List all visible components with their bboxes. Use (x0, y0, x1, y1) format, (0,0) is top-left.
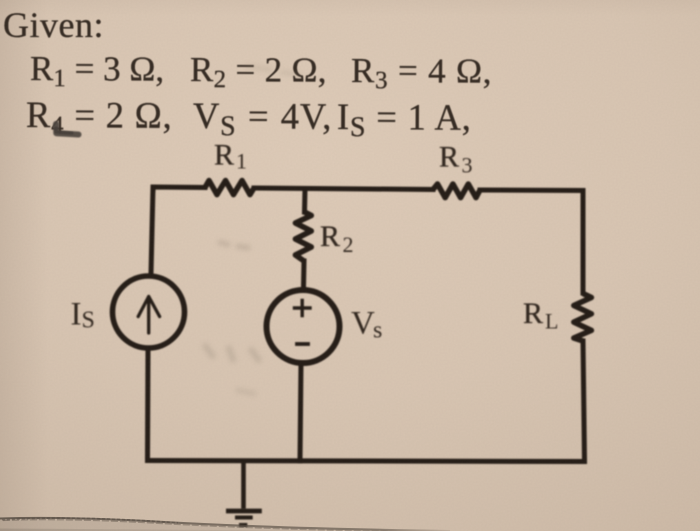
equation line 2 part R4 (26, 97, 173, 139)
ground bar 2 (235, 516, 253, 520)
equation line 1 part R2 (189, 52, 326, 93)
resistor R2 (295, 212, 311, 261)
wire R2 to Vs (301, 261, 307, 287)
current source Is (113, 276, 185, 348)
wire R2 branch top (302, 189, 308, 212)
ground stem (241, 461, 246, 509)
equation line 1 part R1 (29, 51, 163, 92)
equation line 1 part R3 (351, 53, 493, 94)
resistor R3 (433, 184, 480, 198)
wire left vertical upper (151, 187, 153, 274)
resistor R1 (205, 181, 254, 195)
wire right vertical lower (583, 341, 585, 462)
voltage source Vs (267, 290, 340, 363)
arrow of current source (138, 297, 159, 334)
ground bar 3 (239, 523, 247, 527)
minus sign (297, 342, 308, 346)
wire top-left segment (153, 187, 205, 190)
wire top-right segment (480, 188, 583, 194)
wire bottom (148, 461, 585, 462)
wire top-middle segment (254, 188, 433, 190)
resistor RL (574, 294, 592, 342)
equation line 2 part Vs (193, 98, 332, 142)
ground bar 1 (226, 509, 262, 514)
plus sign (295, 301, 311, 316)
wire right vertical upper (581, 191, 586, 294)
equation line 2 part Is (336, 99, 471, 143)
wire left vertical lower (145, 348, 151, 460)
given text heading (3, 7, 104, 43)
wire Vs to bottom (300, 363, 301, 461)
